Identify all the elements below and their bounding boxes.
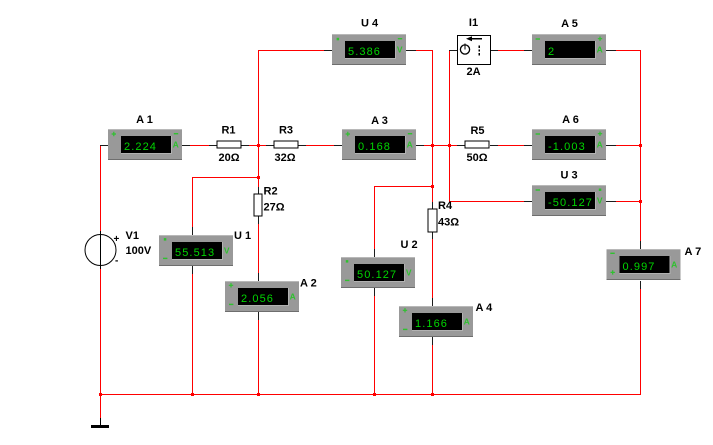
junction ground rail / V1: [99, 393, 102, 396]
pin stub A7 top: [640, 241, 641, 249]
ground: [91, 418, 109, 428]
pin stub U1 top: [192, 227, 193, 235]
ammeter A1: [108, 129, 182, 160]
pin stub U3 right: [606, 201, 616, 202]
svg-text:A 4: A 4: [476, 302, 494, 314]
pin stub U2 bottom: [374, 288, 375, 296]
wire A2 bottom to ground rail: [258, 320, 259, 394]
pin stub A6 right: [606, 145, 616, 146]
lead R5 left: [457, 145, 465, 146]
junction U1 branch on x258: [257, 176, 260, 179]
svg-text:A: A: [597, 45, 603, 55]
ammeter A5: [532, 34, 606, 65]
svg-text:R5: R5: [470, 125, 484, 137]
wire bottom ground rail: [100, 394, 641, 395]
svg-text:U 4: U 4: [361, 18, 379, 30]
wire U1 bottom to ground rail: [192, 274, 193, 394]
junction x449 on main row: [448, 144, 451, 147]
ammeter A6: [532, 129, 606, 160]
wire U3 right pin to node x640: [616, 201, 641, 202]
lead R3 right: [298, 145, 306, 146]
svg-text:A: A: [597, 140, 603, 150]
wire corner x449 to U3 left pin: [449, 201, 524, 202]
wire R5 to A6: [498, 145, 524, 146]
svg-text:5.386: 5.386: [348, 46, 381, 58]
resistor R3: [274, 141, 298, 148]
svg-text:A: A: [464, 317, 470, 327]
junction ground rail / A2: [257, 393, 260, 396]
svg-text:2: 2: [548, 46, 555, 58]
wire R2 bottom to A2 top: [258, 224, 259, 273]
svg-text:U 1: U 1: [234, 230, 251, 242]
svg-text:100V: 100V: [126, 245, 152, 257]
current source I1: [458, 36, 491, 65]
ammeter A7: [607, 249, 681, 280]
svg-text:32Ω: 32Ω: [274, 152, 295, 164]
junction node B (R1/R3/vertical): [257, 144, 260, 147]
wire vertical x449 from I1 left pin down to U3 branch: [449, 50, 450, 201]
svg-text:2A: 2A: [466, 66, 480, 78]
wire V1 bottom to ground rail: [100, 268, 101, 394]
pin stub A5 right: [606, 50, 616, 51]
svg-text:U 2: U 2: [401, 239, 418, 251]
svg-text:A: A: [290, 292, 296, 302]
pin stub U3 left: [524, 201, 532, 202]
svg-text:1.166: 1.166: [415, 318, 448, 330]
junction x432 on main row: [431, 144, 434, 147]
wire A5 right pin to corner x640: [616, 50, 640, 51]
lead R1 right: [241, 145, 249, 146]
wire R4 bottom to A4 top: [432, 239, 433, 298]
svg-text:A 6: A 6: [562, 114, 579, 126]
svg-text:A: A: [671, 260, 677, 270]
pin stub U2 top: [374, 249, 375, 257]
lead R4 top: [432, 202, 433, 209]
wire R1 to R3 through node B: [248, 145, 266, 146]
svg-text:A 2: A 2: [300, 278, 317, 290]
svg-text:I1: I1: [469, 17, 478, 29]
svg-text:0.168: 0.168: [358, 141, 391, 153]
wire corner to U2 top pin: [374, 186, 375, 249]
svg-text:-50.127: -50.127: [548, 197, 593, 209]
lead R4 bottom: [432, 232, 433, 239]
wire A6 right pin to node x640: [616, 145, 641, 146]
lead R3 left: [266, 145, 274, 146]
pin stub A6 left: [524, 145, 532, 146]
svg-text:2.224: 2.224: [124, 141, 157, 153]
wire A7 bottom to ground rail corner: [640, 289, 641, 394]
voltmeter U3: [532, 185, 606, 216]
svg-text:R1: R1: [221, 125, 235, 137]
pin stub U1 bottom: [192, 266, 193, 274]
pin stub A3 right: [416, 145, 424, 146]
svg-text:A 1: A 1: [136, 114, 153, 126]
wire A3 to R5 through nodes: [424, 145, 457, 146]
svg-text:V: V: [597, 196, 603, 206]
junction ground rail / U2: [373, 393, 376, 396]
resistor R4: [428, 209, 437, 232]
wire vertical x432 from U4 down through nodes to R4: [432, 50, 433, 202]
wire A4 bottom to ground rail: [432, 345, 433, 394]
svg-text:V: V: [397, 45, 403, 55]
svg-text:0.997: 0.997: [623, 261, 656, 273]
pin stub I1 right: [491, 50, 498, 51]
wire vertical x640 from A5 down to A7: [640, 50, 641, 242]
pin stub A4 bottom: [432, 337, 433, 345]
wire branch node B down-left to U1 top: [192, 177, 259, 178]
svg-text:V: V: [406, 268, 412, 278]
wire vertical x258 node B down to R2: [258, 50, 259, 187]
ammeter A2: [225, 281, 299, 312]
svg-text:50.127: 50.127: [357, 269, 397, 281]
svg-text:-: -: [115, 256, 118, 267]
svg-text:+: +: [114, 234, 120, 245]
svg-text:V: V: [224, 246, 230, 256]
voltmeter U2: [341, 257, 415, 288]
svg-text:A: A: [173, 140, 179, 150]
resistor R2: [254, 194, 262, 216]
wire I1 right pin to A5: [498, 50, 524, 51]
wire corner to U1 top pin: [192, 177, 193, 227]
resistor R5: [465, 141, 489, 148]
svg-text:43Ω: 43Ω: [438, 217, 459, 229]
svg-text:A 3: A 3: [371, 115, 388, 127]
junction U2 branch on x432: [431, 185, 434, 188]
svg-text:27Ω: 27Ω: [264, 202, 285, 214]
wire A1 to R1: [190, 145, 209, 146]
svg-text:55.513: 55.513: [175, 247, 215, 259]
lead R1 left: [209, 145, 217, 146]
junction ground rail / A4: [431, 393, 434, 396]
junction U3 output on x640: [639, 200, 642, 203]
pin stub A7 bottom: [640, 281, 641, 289]
lead R5 right: [490, 145, 498, 146]
wire top rail left segment (node top to U4): [258, 50, 324, 51]
pin stub A5 left: [524, 50, 532, 51]
junction ground rail / U1: [191, 393, 194, 396]
voltage source V1: [85, 231, 120, 269]
svg-text:A 5: A 5: [561, 18, 578, 30]
wire R3 to A3: [306, 145, 334, 146]
wire U2 bottom to ground rail: [374, 296, 375, 394]
wire A1 left down to V1 top: [100, 146, 101, 232]
svg-text:A: A: [407, 140, 413, 150]
pin stub U4 right: [406, 50, 416, 51]
voltmeter U1: [159, 235, 233, 266]
resistor R1: [217, 141, 241, 148]
pin stub A1 right: [182, 145, 190, 146]
ammeter A3: [342, 129, 416, 160]
lead R2 top: [258, 187, 259, 194]
svg-text:2.056: 2.056: [241, 293, 274, 305]
pin stub A1 left: [100, 145, 108, 146]
wire branch node C to U2 top: [374, 186, 433, 187]
lead R2 bottom: [258, 216, 259, 224]
pin stub A2 bottom: [258, 312, 259, 320]
svg-text:50Ω: 50Ω: [466, 152, 487, 164]
svg-text:R4: R4: [438, 200, 453, 212]
pin stub A2 top: [258, 273, 259, 281]
svg-text:A 7: A 7: [685, 246, 702, 258]
svg-text:R2: R2: [264, 186, 278, 198]
svg-text:R3: R3: [279, 125, 293, 137]
pin stub A4 top: [432, 298, 433, 306]
wire rail to ground symbol: [100, 394, 101, 418]
svg-text:V1: V1: [126, 230, 139, 242]
voltmeter U4: [332, 34, 406, 65]
pin stub A3 left: [334, 145, 342, 146]
junction A6 output on x640: [639, 144, 642, 147]
wire U4 right pin to corner x432: [416, 50, 433, 51]
pin stub I1 left: [449, 50, 457, 51]
svg-text:-1.003: -1.003: [548, 141, 586, 153]
ammeter A4: [399, 306, 473, 337]
pin stub U4 left: [324, 50, 332, 51]
svg-text:20Ω: 20Ω: [218, 152, 239, 164]
svg-text:U 3: U 3: [560, 170, 577, 182]
